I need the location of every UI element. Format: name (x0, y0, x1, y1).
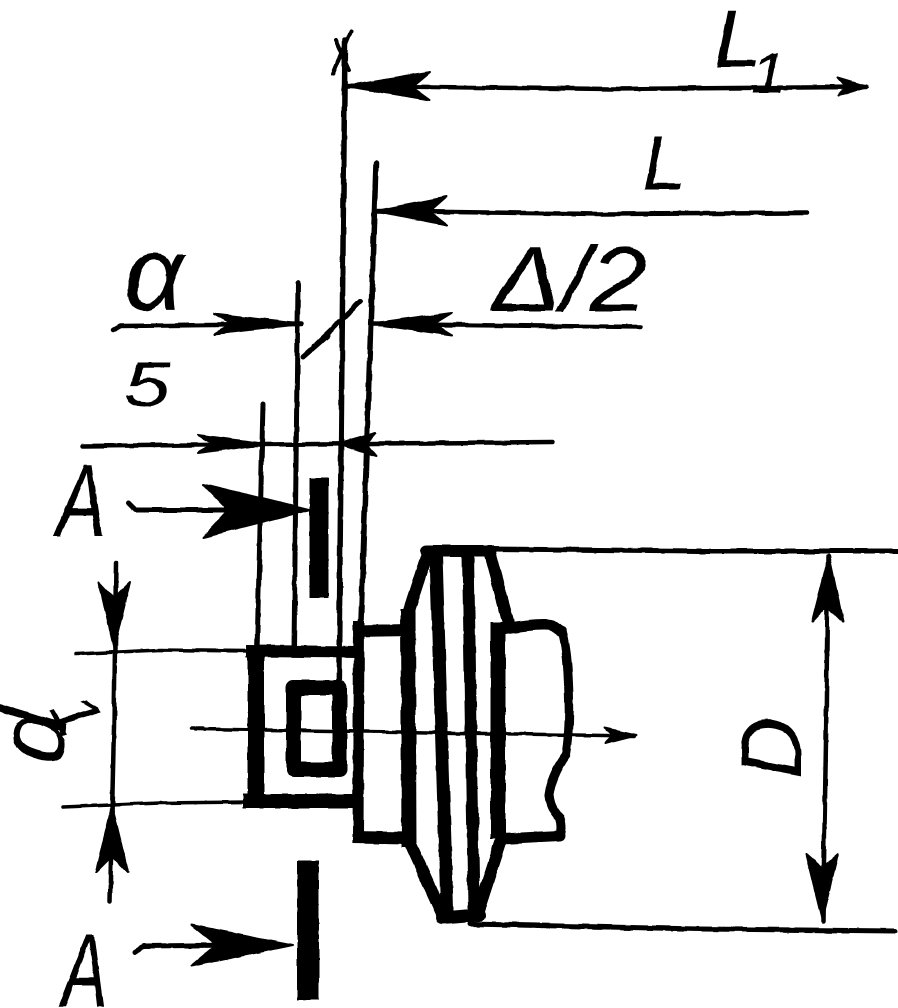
arrowhead L1 right (838, 78, 868, 95)
part: cone inner line 1 (436, 555, 447, 909)
dimension line D vertical (823, 556, 828, 921)
d1 top tick line (76, 650, 250, 654)
part: right boss right wavy edge (549, 631, 569, 836)
tick squiggle at top of V1 (333, 31, 351, 74)
part: cone right face (491, 622, 506, 839)
slash marks at V1 crossing (314, 301, 361, 346)
cylinder top outline line (489, 549, 898, 551)
section cut bar top (310, 478, 329, 598)
extension line V4 (left boundary of 5) (257, 404, 263, 652)
section cut bar bottom (297, 861, 319, 1000)
svg-text:5: 5 (124, 349, 171, 420)
part: inner box (hole frame) (294, 688, 340, 770)
part: right boss top edge (502, 625, 561, 633)
d1 bottom tick line (63, 802, 250, 807)
part: cone top-right slant (489, 551, 508, 621)
svg-text:L: L (642, 120, 686, 206)
dimension line d1 vertical (110, 563, 116, 901)
part: left box left wall (248, 647, 265, 806)
svg-text:α: α (124, 216, 187, 333)
part: cone top-left slant (407, 552, 428, 617)
arrowhead d1 down (99, 582, 130, 648)
svg-text:1: 1 (751, 41, 786, 106)
arrowhead d1 up (96, 806, 128, 872)
part: cone inner line 2 (468, 554, 474, 908)
svg-text:A: A (53, 444, 106, 558)
arrowhead a right (214, 314, 302, 334)
svg-text:D: D (724, 717, 820, 779)
part: cone bottom-right slant (477, 838, 502, 915)
extension line V1 (left boundary of L1, right of a) (338, 40, 345, 767)
arrowhead 5 left (338, 433, 376, 456)
part: flange left face (358, 621, 359, 837)
extension line V2 (left boundary of L, right of delta/2) (361, 163, 376, 622)
part: cone left face (408, 609, 409, 847)
part: flange bottom edge (353, 837, 408, 838)
part: left box bottom edge (243, 794, 360, 808)
arrowhead D down (806, 854, 838, 919)
arrowhead L left (376, 197, 447, 225)
dimension line L1 (345, 86, 866, 89)
part: flange top edge (353, 630, 412, 631)
dimension line 5 (82, 442, 553, 446)
cylinder bottom outline line (470, 924, 895, 931)
dimension line delta/2 (371, 324, 641, 327)
section arrow A bottom (135, 945, 240, 952)
part: cone top flat (426, 545, 491, 557)
arrowhead delta/2 left (371, 313, 452, 335)
part: left box top edge (246, 651, 360, 652)
part: right boss bottom edge (502, 836, 560, 839)
arrowhead D up (812, 556, 843, 622)
arrowhead 5 right (198, 435, 266, 453)
svg-text:A: A (58, 911, 107, 1008)
extension line V3 (left boundary of a) (294, 283, 298, 650)
axis center line with right arrow (192, 728, 634, 736)
part: cone bottom flat (442, 915, 479, 918)
section arrow A top (128, 503, 240, 510)
arrowhead L1 left (345, 72, 430, 100)
dimension line a (113, 324, 302, 330)
dimension line L (376, 211, 806, 214)
part: cone bottom-left slant (410, 843, 444, 918)
svg-text:Δ/2: Δ/2 (490, 228, 647, 331)
